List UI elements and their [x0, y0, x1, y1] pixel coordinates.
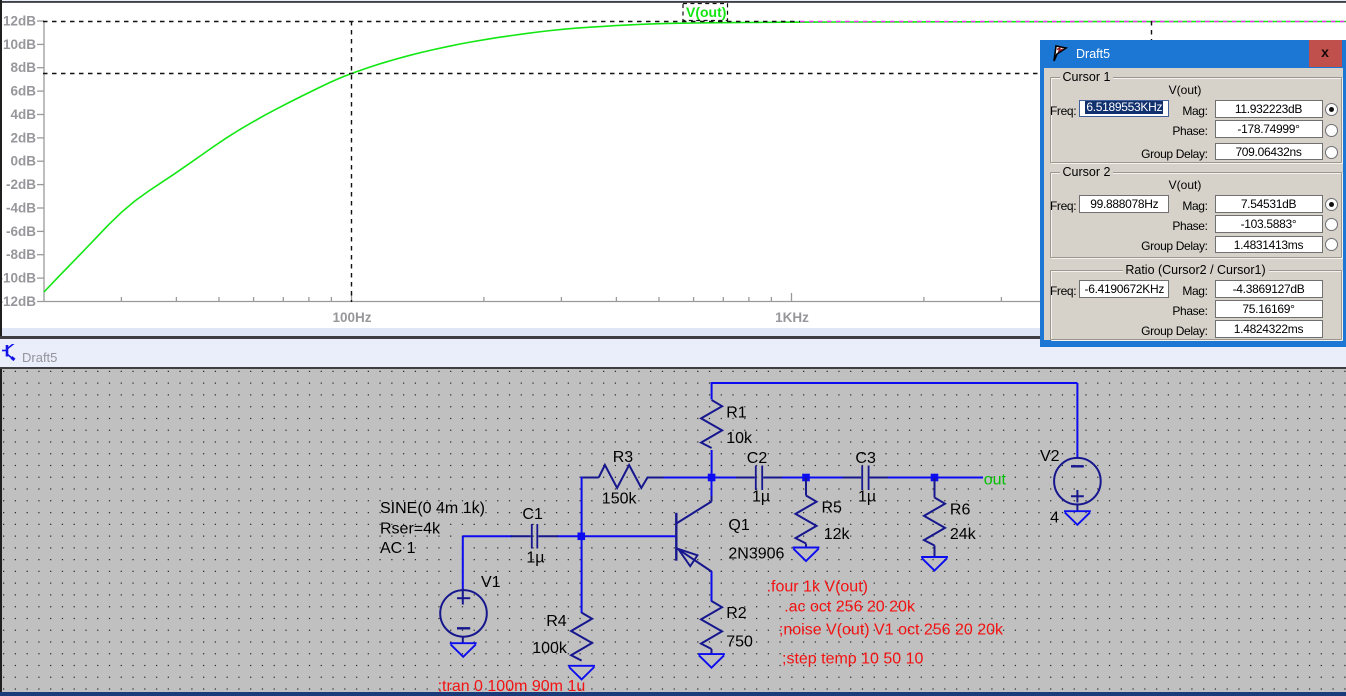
- y axis line: [43, 21, 45, 302]
- svg-text:2N3906: 2N3906: [728, 546, 784, 563]
- wire C1 to junction: [557, 535, 582, 537]
- LTspice waveform icon: [1052, 45, 1069, 62]
- wire R1 top stub: [711, 382, 713, 400]
- plot pane background: [0, 0, 1346, 328]
- svg-text:R6: R6: [950, 502, 971, 519]
- wire C2 left: [711, 477, 737, 479]
- svg-text:1µ: 1µ: [858, 489, 876, 506]
- voltage source V1: [440, 589, 487, 643]
- schematic window icon: [2, 344, 18, 366]
- junction node at collector: [708, 474, 716, 482]
- svg-text:24k: 24k: [950, 526, 977, 543]
- capacitor C3: [843, 466, 888, 491]
- svg-text:12k: 12k: [824, 526, 851, 543]
- svg-text:V2: V2: [1040, 448, 1060, 465]
- cursor 1 vertical dashed line (6.5kHz): [1151, 21, 1153, 44]
- svg-text:-10dB: -10dB: [0, 271, 36, 286]
- svg-text:4: 4: [1050, 510, 1059, 527]
- capacitor C1: [511, 524, 558, 549]
- svg-text:;step temp 10 50 10: ;step temp 10 50 10: [782, 651, 924, 668]
- svg-text:10dB: 10dB: [3, 37, 36, 52]
- ground under R4: [568, 666, 595, 680]
- svg-text:AC 1: AC 1: [380, 540, 416, 557]
- wire V2 riser: [1076, 383, 1078, 458]
- svg-text:C1: C1: [522, 506, 543, 523]
- wire C2 right to R5 junction: [781, 477, 806, 479]
- resistor R5 body: [805, 478, 807, 496]
- resistor R1 body: [701, 400, 722, 448]
- svg-text:V1: V1: [481, 574, 501, 591]
- x axis minor ticks: [121, 293, 1231, 302]
- wire R1 bottom to collector junction: [711, 450, 713, 478]
- wire C3 right to R6 junction: [887, 477, 935, 479]
- svg-text:1µ: 1µ: [526, 550, 544, 567]
- capacitor C2: [736, 466, 782, 491]
- group box Cursor 2: [1050, 172, 1342, 258]
- cursor 2 vertical dashed line (100Hz): [351, 21, 353, 302]
- svg-text:Rser=4k: Rser=4k: [380, 521, 441, 538]
- svg-text:Q1: Q1: [728, 517, 749, 534]
- svg-text:C3: C3: [855, 450, 876, 467]
- ground under R2: [698, 654, 725, 668]
- svg-text:out: out: [984, 472, 1007, 489]
- wire out node: [934, 477, 984, 479]
- top window border line: [0, 0, 1346, 2]
- svg-text:-4dB: -4dB: [6, 201, 36, 216]
- wire junction to R4: [581, 535, 583, 613]
- resistor R4 body: [571, 613, 592, 661]
- wire V1 to C1: [463, 535, 512, 537]
- y axis labels: [0, 14, 36, 310]
- svg-text:.four 1k V(out): .four 1k V(out): [767, 579, 868, 596]
- cursor dialog window Draft5: [1040, 40, 1346, 347]
- svg-text:1µ: 1µ: [752, 489, 770, 506]
- schematic text labels: [380, 405, 1060, 658]
- svg-text:6dB: 6dB: [10, 84, 36, 99]
- svg-text:;noise V(out) V1 oct 256 20 20: ;noise V(out) V1 oct 256 20 20k: [779, 622, 1004, 639]
- group box Ratio: [1050, 270, 1342, 340]
- svg-text:2dB: 2dB: [10, 130, 36, 145]
- wire top rail from R1 to V2: [712, 382, 1078, 384]
- wire R5 junction to C3 left: [805, 477, 844, 479]
- svg-text:12dB: 12dB: [3, 14, 36, 29]
- schematic canvas background: [0, 369, 1346, 692]
- cursor 2 horizontal dashed line (7.54dB): [43, 73, 1346, 75]
- bottom navy strip: [0, 692, 1346, 696]
- svg-text:C2: C2: [747, 450, 768, 467]
- y axis ticks: [37, 21, 44, 302]
- junction node at C1/R3/R4/base: [578, 533, 586, 541]
- wire collector stub: [711, 478, 713, 497]
- resistor R3 body (horizontal): [583, 465, 665, 488]
- resistor R6 body: [934, 478, 936, 498]
- svg-text:SINE(0 4m 1k): SINE(0 4m 1k): [380, 500, 485, 517]
- separator line below plot pane: [0, 336, 1346, 339]
- wire R3 left vertical drop: [581, 477, 583, 537]
- svg-text:R1: R1: [726, 405, 747, 422]
- svg-text:R3: R3: [613, 449, 634, 466]
- svg-text:750: 750: [726, 634, 753, 651]
- ground under V1: [450, 643, 477, 657]
- svg-text:0dB: 0dB: [10, 154, 36, 169]
- svg-text:-6dB: -6dB: [6, 224, 36, 239]
- junction node at R6/out: [931, 474, 939, 482]
- resistor R2 body: [701, 601, 722, 649]
- group box Cursor 1: [1050, 77, 1342, 163]
- svg-text:;tran 0 100m 90m 1u: ;tran 0 100m 90m 1u: [438, 678, 586, 692]
- wire base: [581, 535, 676, 537]
- svg-text:4dB: 4dB: [10, 107, 36, 122]
- wire emitter to R2: [711, 571, 713, 602]
- junction node at R5: [802, 474, 810, 482]
- ground under R5: [793, 548, 820, 562]
- svg-text:R4: R4: [546, 613, 567, 630]
- cursor 1 horizontal dashed line (11.93dB): [43, 21, 800, 23]
- x axis labels: [332, 310, 809, 325]
- svg-text:100Hz: 100Hz: [332, 310, 371, 325]
- svg-text:8dB: 8dB: [10, 60, 36, 75]
- svg-text:R5: R5: [822, 500, 843, 517]
- svg-text:R2: R2: [726, 605, 747, 622]
- wire V1 riser: [462, 536, 464, 590]
- trace V(out) green curve: [44, 22, 1346, 293]
- svg-text:V(out): V(out): [686, 4, 726, 20]
- svg-text:-12dB: -12dB: [0, 294, 36, 309]
- svg-text:100k: 100k: [532, 640, 568, 657]
- transistor Q1 2N3906: [676, 496, 711, 572]
- svg-text:.ac oct 256 20 20k: .ac oct 256 20 20k: [784, 599, 916, 616]
- svg-text:-8dB: -8dB: [6, 247, 36, 262]
- svg-text:-2dB: -2dB: [6, 177, 36, 192]
- svg-text:1KHz: 1KHz: [775, 310, 809, 325]
- x axis line: [44, 301, 1346, 303]
- svg-text:150k: 150k: [602, 491, 638, 508]
- voltage source V2: [1054, 458, 1101, 511]
- svg-text:10k: 10k: [726, 430, 753, 447]
- ground under R6: [921, 557, 948, 571]
- ground under V2: [1064, 511, 1091, 525]
